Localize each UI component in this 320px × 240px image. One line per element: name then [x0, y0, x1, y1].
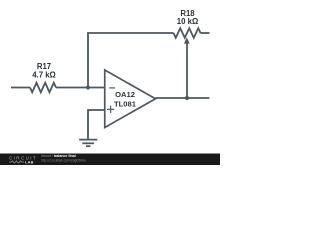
svg-text:LAB: LAB [25, 160, 34, 164]
svg-text:10 kΩ: 10 kΩ [177, 17, 198, 26]
svg-text:4.7 kΩ: 4.7 kΩ [32, 71, 56, 80]
svg-text:R17: R17 [37, 62, 51, 71]
svg-text:OA12: OA12 [115, 90, 135, 99]
svg-text:TL081: TL081 [114, 99, 137, 108]
svg-text:htlp://circuitlab.com/c9gb5hka: htlp://circuitlab.com/c9gb5hka [41, 158, 86, 162]
